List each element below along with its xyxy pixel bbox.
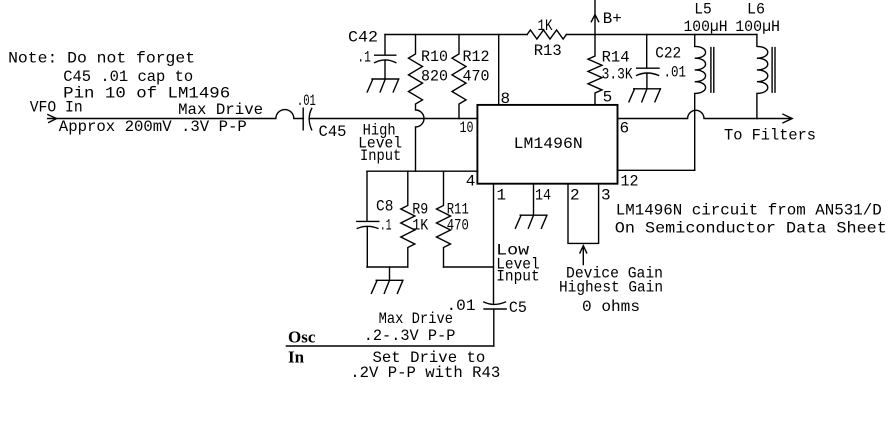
wire pin 12: [618, 169, 695, 171]
svg-text:On Semiconductor Data Sheet: On Semiconductor Data Sheet: [615, 220, 887, 238]
wire top rail: [385, 34, 757, 36]
wire pins 2-3 gain link: [568, 184, 599, 244]
resistor R14 to pin 5: [588, 35, 602, 105]
ground below C8 R9: [371, 280, 403, 293]
svg-text:0 ohms: 0 ohms: [582, 298, 640, 316]
wire B+: [594, 0, 596, 35]
resistor R10 with hop over pin-10 wire: [409, 35, 425, 172]
svg-text:Osc: Osc: [288, 328, 316, 347]
resistor R11: [437, 171, 451, 267]
wire VFO input with hop before C45: [48, 110, 304, 119]
ground below C42: [367, 79, 399, 92]
svg-text:14: 14: [535, 187, 551, 205]
wire ground stub: [389, 267, 391, 280]
svg-text:1K: 1K: [412, 217, 428, 235]
svg-text:C22: C22: [655, 45, 681, 63]
svg-text:C42: C42: [348, 29, 378, 47]
svg-text:100µH: 100µH: [735, 18, 780, 36]
svg-text:470: 470: [463, 68, 490, 86]
capacitor C22: [637, 35, 659, 89]
svg-text:To Filters: To Filters: [724, 127, 816, 145]
svg-text:.01: .01: [664, 64, 687, 82]
arrowhead VFO In: [48, 115, 57, 123]
arrowhead To Filters: [783, 114, 792, 123]
svg-text:R12: R12: [463, 48, 490, 66]
capacitor C5: [484, 302, 506, 346]
svg-text:820: 820: [421, 68, 448, 86]
svg-text:Input: Input: [360, 147, 401, 165]
svg-text:.1: .1: [357, 49, 371, 67]
resistor R12: [452, 35, 466, 119]
svg-text:.01: .01: [297, 92, 316, 110]
inductor L5: [695, 35, 706, 171]
wire pin 6 to filters with hop: [618, 110, 792, 118]
wire pin 1: [493, 184, 495, 304]
svg-text:3: 3: [601, 187, 611, 205]
svg-text:1: 1: [497, 187, 507, 205]
svg-text:LM1496N: LM1496N: [514, 135, 583, 153]
svg-text:100µH: 100µH: [684, 18, 728, 36]
svg-text:Input: Input: [496, 268, 540, 286]
svg-text:.2-.3V P-P: .2-.3V P-P: [364, 327, 456, 345]
svg-text:3.3K: 3.3K: [602, 65, 633, 83]
ground below pin 14: [515, 215, 547, 228]
svg-text:4: 4: [466, 173, 476, 191]
wire pin 4: [367, 170, 477, 172]
svg-text:470: 470: [447, 217, 469, 235]
wire R11 to pin 1: [444, 266, 494, 268]
svg-text:Pin 10 of LM1496: Pin 10 of LM1496: [63, 85, 230, 103]
resistor R13: [527, 30, 566, 39]
svg-text:1K: 1K: [538, 17, 553, 35]
ground below C22: [629, 89, 661, 102]
svg-text:.1: .1: [380, 217, 392, 235]
svg-text:C45 .01 cap to: C45 .01 cap to: [63, 68, 193, 86]
svg-text:C5: C5: [509, 299, 527, 317]
svg-text:C45: C45: [319, 123, 347, 141]
svg-text:B+: B+: [603, 10, 622, 28]
wire C8 to R9 bottom: [367, 266, 408, 268]
svg-text:.2V P-P with R43: .2V P-P with R43: [350, 364, 500, 382]
wire pin 14: [533, 184, 535, 216]
svg-text:L5: L5: [694, 0, 712, 18]
svg-text:10: 10: [460, 119, 474, 137]
core L6: [772, 48, 775, 93]
svg-text:C8: C8: [376, 198, 393, 216]
op-amp U1 LM1496N box: [477, 105, 617, 184]
wire C45 to pin 10: [310, 118, 477, 120]
capacitor C42: [375, 35, 396, 79]
svg-text:LM1496N circuit from AN531/D: LM1496N circuit from AN531/D: [616, 202, 882, 220]
svg-text:R13: R13: [534, 42, 562, 60]
arrowhead B+: [591, 15, 598, 22]
svg-text:.01: .01: [447, 297, 476, 315]
svg-text:VFO In: VFO In: [30, 98, 83, 116]
svg-text:8: 8: [501, 90, 511, 108]
svg-text:R10: R10: [421, 48, 448, 66]
svg-text:Approx 200mV .3V P-P: Approx 200mV .3V P-P: [59, 118, 247, 136]
wire pin 8: [498, 35, 500, 105]
arrow device gain: [580, 246, 587, 265]
svg-text:12: 12: [621, 173, 639, 191]
svg-text:L6: L6: [747, 0, 765, 18]
resistor R9: [401, 171, 415, 267]
wire Osc In: [286, 345, 493, 347]
svg-text:Max Drive: Max Drive: [178, 101, 263, 119]
core L5: [711, 48, 714, 93]
svg-text:6: 6: [620, 120, 630, 138]
svg-text:2: 2: [570, 187, 580, 205]
capacitor C45: [303, 108, 312, 130]
svg-text:Max Drive: Max Drive: [379, 310, 453, 328]
svg-text:R14: R14: [602, 49, 630, 67]
svg-text:In: In: [288, 348, 305, 367]
capacitor C8: [357, 171, 379, 267]
inductor L6: [757, 35, 768, 119]
svg-text:Highest Gain: Highest Gain: [559, 279, 663, 297]
svg-text:Note: Do not forget: Note: Do not forget: [8, 50, 195, 68]
svg-text:5: 5: [603, 89, 613, 107]
